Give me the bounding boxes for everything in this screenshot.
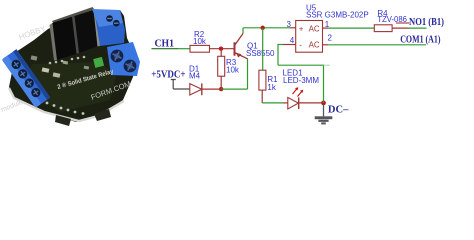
- svg-text:10k: 10k: [226, 66, 240, 75]
- svg-text:DC–: DC–: [328, 105, 349, 116]
- svg-text:+5VDC+: +5VDC+: [151, 70, 185, 81]
- wire base node down to R3: [220, 49, 222, 57]
- ground: [315, 104, 333, 124]
- wire R3 to +5V node: [220, 76, 222, 89]
- svg-text:SSR G3MB-202P: SSR G3MB-202P: [306, 11, 369, 20]
- relay top band: [52, 7, 96, 26]
- junction DC- node: [321, 101, 326, 106]
- svg-text:SS8550: SS8550: [246, 49, 275, 58]
- wire R4 to NO1: [392, 23, 426, 28]
- svg-text:LED-3MM: LED-3MM: [283, 76, 319, 85]
- LED LED1: [283, 69, 320, 109]
- white rim bottom edge: [9, 88, 124, 121]
- svg-text:4: 4: [290, 36, 295, 45]
- resistor R3: [218, 56, 240, 76]
- svg-text:NO1 (B1): NO1 (B1): [409, 17, 444, 28]
- wire collector up to SSR pin3: [243, 28, 291, 34]
- junction collector node: [261, 26, 265, 30]
- wire R1 to LED: [262, 102, 283, 104]
- svg-text:AC: AC: [309, 25, 320, 34]
- solder dots under relays: [49, 56, 86, 65]
- svg-text:M4: M4: [189, 72, 201, 81]
- svg-text:COM1 (A1): COM1 (A1): [400, 35, 441, 46]
- svg-text:CH1: CH1: [155, 38, 175, 49]
- svg-text:10k: 10k: [193, 37, 207, 46]
- transistor Q1: [235, 34, 276, 59]
- smd bits: [42, 67, 50, 72]
- pin 3 stub: [291, 27, 296, 29]
- pin1 wire to R4: [323, 27, 375, 29]
- bottom solder pads: [46, 102, 85, 115]
- resistor R4: [374, 9, 407, 32]
- svg-text:-: -: [299, 41, 302, 50]
- PCB board: [9, 8, 137, 122]
- junction +5V node: [219, 87, 223, 91]
- terminal block bottom-right big screws: [107, 42, 140, 76]
- svg-text:2: 2: [328, 33, 333, 42]
- wire CH1 to R2: [178, 48, 190, 50]
- terminal strip left: [2, 49, 51, 108]
- PCB lighter area bottom: [24, 62, 116, 112]
- svg-text:1k: 1k: [267, 83, 276, 92]
- wire +5V node to emitter: [221, 59, 247, 90]
- svg-text:AC: AC: [309, 41, 320, 50]
- svg-text:3: 3: [287, 20, 292, 29]
- junction base node: [219, 47, 223, 51]
- wire LED to DC- node: [299, 102, 324, 104]
- resistor R1: [259, 70, 278, 92]
- pin2 wire to COM1: [323, 44, 427, 46]
- SSR U5: [296, 4, 369, 53]
- terminal block top-right: [92, 9, 125, 46]
- resistor R2: [190, 30, 210, 52]
- wire collector node down to R1: [262, 28, 264, 70]
- board feet: [55, 115, 71, 126]
- svg-text:+: +: [299, 25, 304, 34]
- relay 1: [50, 17, 78, 61]
- terminal +5VDC: [151, 70, 191, 89]
- wire R2 to base node: [210, 48, 235, 50]
- wire D1 to +5V node: [203, 88, 222, 90]
- wire R1 down: [261, 90, 263, 103]
- SSR pin4 wire: [278, 44, 324, 65]
- wire DC- node up stub: [324, 65, 331, 103]
- diode D1: [189, 65, 202, 96]
- terminal CH1: [152, 38, 179, 49]
- relay 2: [72, 9, 100, 54]
- green jumper: [93, 57, 104, 68]
